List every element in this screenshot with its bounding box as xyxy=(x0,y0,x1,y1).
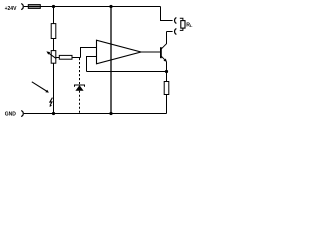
wire wiper to R3 xyxy=(56,57,60,59)
wire feedback from emitter node xyxy=(87,71,167,73)
connector pin socket output upper xyxy=(175,18,177,24)
wire collector to lower pin xyxy=(167,31,173,33)
load resistor RL leads xyxy=(180,18,183,20)
wire op-amp output to base xyxy=(141,51,160,53)
wire R4 to ground rail xyxy=(166,95,168,114)
fuse F1 xyxy=(28,5,40,9)
light arrow annotation xyxy=(32,82,47,92)
wire inverting input xyxy=(87,57,97,72)
dashed wire zener to ground rail xyxy=(79,91,81,114)
dashed wire to zener xyxy=(79,58,81,84)
photoresistor R2 (variable) xyxy=(51,51,56,64)
connector pin socket output lower xyxy=(175,29,177,35)
connector pin socket GND xyxy=(21,111,23,117)
zener diode D1 xyxy=(75,85,85,87)
svg-text:+24V: +24V xyxy=(5,6,17,12)
wire below R2 to ground rail xyxy=(53,63,55,113)
node junction divider bottom xyxy=(52,112,55,115)
arrow of variable resistor R2 xyxy=(48,53,56,59)
wire between R1 and R2 xyxy=(53,39,55,51)
load resistor RL xyxy=(181,21,185,29)
node junction top of divider xyxy=(52,5,55,8)
transistor Q1 emitter xyxy=(161,56,165,60)
wire up to op-amp non-inverting input xyxy=(81,48,97,58)
wire top rail from pin to fuse xyxy=(24,6,29,8)
op-amp U1 xyxy=(97,40,142,64)
resistor R4 emitter xyxy=(164,82,169,95)
light flash symbol xyxy=(50,98,53,105)
wire op-amp supply vertical xyxy=(110,7,112,114)
resistor R1 xyxy=(51,24,56,39)
wire emitter down xyxy=(166,62,168,82)
resistor R3 xyxy=(59,55,72,59)
node junction supply bottom xyxy=(109,112,112,115)
node junction op-amp supply top xyxy=(109,5,112,8)
transistor Q1 collector xyxy=(161,32,166,49)
svg-text:RL: RL xyxy=(186,22,193,28)
wire R3 to corner xyxy=(72,57,81,59)
wire top rail right corner down xyxy=(161,7,173,21)
node junction feedback-emitter xyxy=(165,70,168,73)
wire top rail from fuse to right corner xyxy=(40,6,160,8)
wire divider branch upper xyxy=(53,7,55,24)
transistor Q1 base bar xyxy=(160,47,162,58)
connector pin socket +24V xyxy=(21,4,23,10)
svg-text:GND: GND xyxy=(5,112,16,118)
wire ground rail xyxy=(24,113,167,115)
